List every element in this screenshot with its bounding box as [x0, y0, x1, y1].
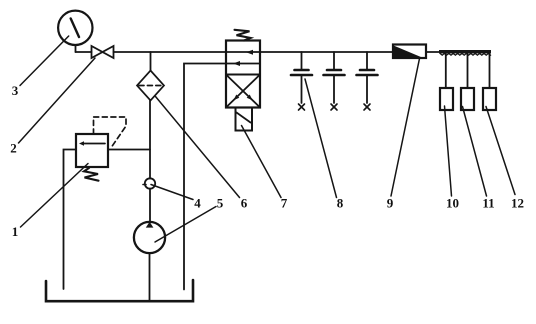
- leader line 10: [445, 106, 452, 196]
- leader line 3: [20, 36, 69, 86]
- svg-text:8: 8: [337, 196, 344, 211]
- wire main pressure line valve2 to valve7: [114, 51, 227, 53]
- wire return line valve7 to tank: [184, 64, 226, 290]
- relief valve 1: [76, 134, 108, 181]
- svg-text:7: 7: [281, 196, 288, 211]
- bearing point 10: [440, 88, 453, 110]
- svg-text:10: 10: [446, 196, 459, 211]
- svg-text:11: 11: [482, 196, 494, 211]
- wire box9 to manifold: [426, 51, 440, 53]
- svg-text:12: 12: [511, 196, 524, 211]
- filter 6: [137, 71, 164, 101]
- leader line 9: [391, 59, 420, 197]
- metering device 9: [393, 45, 426, 59]
- svg-text:1: 1: [12, 224, 19, 239]
- wire gauge drop: [75, 45, 77, 52]
- leader line 5: [155, 207, 216, 243]
- pilot dashed line of relief valve: [94, 117, 127, 149]
- leader line 7: [242, 126, 282, 198]
- leader line 6: [156, 97, 240, 198]
- wire relief valve drain to tank: [64, 150, 77, 290]
- tank: [46, 280, 193, 301]
- leader line 8: [305, 79, 337, 198]
- wire pump suction to tank: [149, 253, 151, 301]
- wire gauge to valve2: [76, 51, 92, 53]
- pump 5: [134, 222, 165, 253]
- leader line 4: [151, 185, 193, 200]
- svg-text:5: 5: [217, 196, 224, 211]
- leader line 12: [486, 107, 515, 195]
- bearing point 11: [461, 88, 474, 110]
- wire manifold drop 10: [445, 54, 447, 89]
- wire filter top to main line: [150, 52, 152, 71]
- wire main line valve7 to box9: [260, 51, 393, 53]
- leader line 11: [463, 107, 487, 197]
- bearing point 12: [483, 88, 496, 110]
- shut-off valve 2: [92, 46, 114, 58]
- leader line 1: [21, 164, 89, 228]
- wire filter bottom down to check valve 4: [149, 101, 151, 179]
- directional valve 7: [226, 41, 260, 108]
- grease outlet 8a: [291, 52, 312, 110]
- distributor manifold bar: [439, 50, 491, 55]
- grease outlet 8b: [324, 52, 345, 110]
- svg-text:6: 6: [241, 196, 248, 211]
- pressure gauge 3: [58, 11, 92, 45]
- wire manifold drop 12: [489, 54, 491, 89]
- svg-text:2: 2: [10, 141, 17, 156]
- spring of valve 7: [235, 30, 251, 41]
- grease outlet 8c: [357, 52, 378, 110]
- svg-text:9: 9: [387, 196, 394, 211]
- wire manifold drop 11: [467, 54, 469, 89]
- wire relief valve to pump line: [108, 149, 150, 151]
- wire check valve to pump: [149, 189, 151, 223]
- svg-text:4: 4: [194, 196, 201, 211]
- svg-text:3: 3: [12, 83, 19, 98]
- leader line 2: [19, 58, 96, 143]
- check valve 4: [143, 178, 155, 188]
- solenoid of valve 7: [236, 108, 253, 131]
